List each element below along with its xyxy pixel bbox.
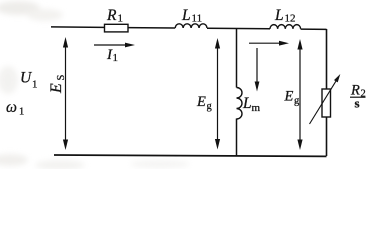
svg-text:L: L	[274, 7, 284, 24]
svg-text:12: 12	[285, 13, 296, 25]
current arrow I1	[94, 44, 127, 46]
resistor R1	[105, 24, 129, 32]
wire: middle vertical branch, lower segment	[236, 119, 238, 157]
svg-text:E: E	[284, 89, 294, 105]
emf arrow Eg (right, rotor side, double-headed)	[299, 46, 301, 143]
svg-text:1: 1	[32, 79, 38, 91]
svg-text:g: g	[207, 101, 213, 112]
svg-text:s: s	[355, 96, 360, 111]
svg-text:11: 11	[192, 13, 203, 25]
svg-text:m: m	[252, 102, 261, 114]
svg-text:2: 2	[361, 89, 366, 100]
svg-text:E: E	[48, 83, 65, 94]
inductor L11	[175, 24, 207, 28]
svg-text:L: L	[181, 7, 191, 24]
wire: top conductor, segment from source terminal to L11	[51, 27, 175, 28]
svg-text:S: S	[56, 75, 67, 81]
wire: top conductor, segment from L11 to L12	[207, 27, 270, 30]
svg-text:E: E	[196, 94, 206, 110]
label ES	[48, 75, 67, 95]
wire: bottom conductor	[54, 155, 327, 156]
svg-text:1: 1	[19, 107, 24, 118]
svg-text:1: 1	[118, 13, 124, 25]
resistor R2/s (variable rotor resistance)	[322, 89, 331, 117]
svg-text:R: R	[106, 7, 117, 24]
inductor L12	[270, 25, 301, 29]
emf arrow ES (stator port, double-headed)	[65, 45, 67, 142]
inductor Lm (magnetizing inductance)	[237, 88, 243, 120]
svg-text:1: 1	[113, 52, 119, 64]
wire: top conductor, segment from L12 to top-right corner	[301, 28, 327, 30]
svg-text:ω: ω	[6, 99, 17, 116]
svg-text:g: g	[294, 96, 300, 107]
current arrow Im (magnetizing branch, downward)	[256, 48, 258, 83]
wire: right vertical conductor	[326, 29, 328, 156]
current arrow I2 (rotor branch)	[249, 42, 281, 44]
svg-text:L: L	[242, 95, 252, 112]
emf arrow Eg (left, across magnetizing branch, double-headed)	[217, 45, 219, 142]
wire: middle vertical branch (magnetizing branch), upper segment	[236, 28, 238, 88]
